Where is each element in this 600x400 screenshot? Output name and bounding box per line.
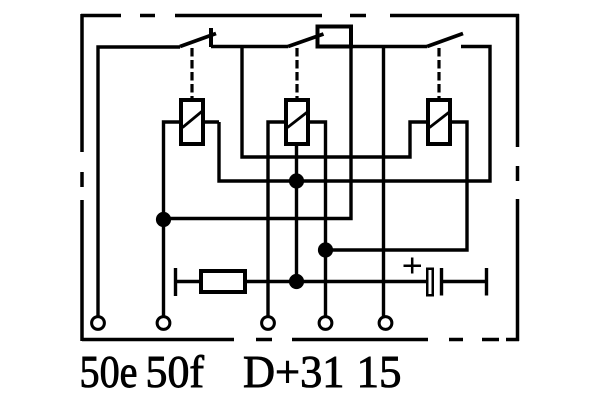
svg-text:50e: 50e xyxy=(80,346,138,397)
svg-text:D+31: D+31 xyxy=(243,346,345,397)
svg-text:50f: 50f xyxy=(146,346,205,397)
svg-text:15: 15 xyxy=(357,346,402,397)
